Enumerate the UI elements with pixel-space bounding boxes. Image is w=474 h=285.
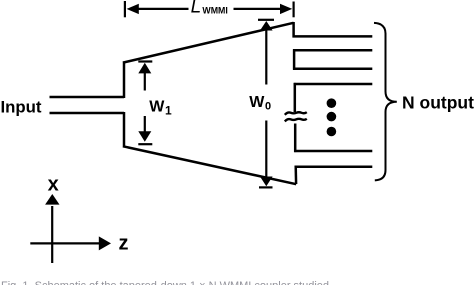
wire: taper left edge upper vertical (123, 61, 126, 98)
break squiggle upper wavy line (285, 112, 307, 115)
wire: output waveguide N bottom edge (295, 166, 373, 169)
wire: taper left edge lower vertical (123, 112, 126, 148)
label W1 (149, 99, 172, 118)
coordinate axes x shaft (51, 206, 53, 263)
dimension W0 upper arrowhead (260, 21, 273, 31)
dimension L_WMMI left tick (124, 1, 126, 17)
svg-text:N outputs: N outputs (402, 92, 474, 112)
wire: output waveguide 2 top edge (293, 67, 372, 70)
curly brace for N outputs (374, 23, 397, 181)
wire: output waveguide N top edge (294, 150, 372, 153)
break squiggle lower wavy line (285, 119, 307, 122)
caption (clipped at bottom edge) (1, 280, 329, 285)
wire: MMI right wall above output 1 (292, 22, 295, 38)
svg-text:W: W (149, 99, 165, 116)
dimension W0 lower arrowhead (260, 177, 273, 187)
wire: input waveguide bottom edge (50, 112, 125, 115)
wire: output waveguide 1 bottom edge (293, 49, 372, 52)
label x axis (48, 174, 59, 196)
dimension W1 bottom tick (138, 143, 152, 145)
wire: dimension W0 lower shaft (265, 121, 267, 179)
label z axis (119, 233, 129, 255)
coordinate axes z shaft (30, 242, 100, 244)
wire: MMI wall middle upper segment (294, 83, 297, 112)
svg-text:x: x (48, 174, 59, 196)
coordinate axes z arrowhead (99, 236, 111, 250)
label N outputs (402, 92, 474, 112)
wire: MMI wall middle lower segment (294, 124, 297, 153)
svg-text:z: z (119, 233, 129, 255)
wire: dimension W1 lower shaft (144, 116, 146, 133)
svg-text:WMMI: WMMI (202, 6, 227, 16)
wire: dimension L_WMMI shaft left segment (138, 8, 189, 10)
coordinate axes x arrowhead (45, 194, 59, 205)
svg-text:0: 0 (265, 101, 271, 113)
wire: dimension W1 upper shaft (144, 72, 146, 91)
wire: dimension L_WMMI shaft right segment (234, 8, 282, 10)
ellipsis dot 2 (327, 112, 337, 122)
label W0 (249, 94, 271, 113)
ellipsis dot 3 (327, 127, 337, 137)
wire: output waveguide 2 bottom edge (294, 83, 373, 86)
wire: output waveguide 1 top edge (293, 35, 373, 38)
label L_WMMI (191, 0, 228, 18)
dimension W0 top tick (258, 19, 274, 21)
svg-text:W: W (249, 94, 265, 111)
label Input (1, 98, 42, 117)
svg-text:1: 1 (165, 104, 172, 118)
wire: taper top edge (123, 23, 294, 63)
dimension L_WMMI right arrowhead (280, 4, 292, 14)
dimension L_WMMI right tick (293, 2, 295, 18)
dimension W1 lower arrowhead (138, 131, 151, 142)
dimension W0 bottom tick (259, 186, 273, 188)
dimension W1 top tick (138, 60, 152, 62)
svg-text:Fig. 1. Schematic of the tap: Fig. 1. Schematic of the tapered-down 1 … (1, 280, 329, 285)
dimension L_WMMI left arrowhead (127, 4, 139, 14)
wire: MMI wall below output N (294, 166, 297, 184)
ellipsis dot 1 (327, 98, 337, 108)
wire: taper bottom edge (123, 146, 296, 184)
svg-text:Input: Input (1, 98, 42, 117)
wire: input waveguide top edge (50, 96, 125, 99)
dimension W1 upper arrowhead (138, 63, 151, 74)
svg-text:L: L (191, 0, 202, 18)
wire: MMI wall between outputs 1 and 2 (293, 49, 296, 70)
wire: dimension W0 upper shaft (265, 29, 267, 85)
